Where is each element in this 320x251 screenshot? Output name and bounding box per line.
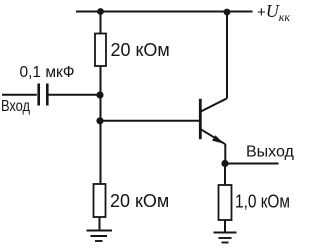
svg-text:0,1 мкФ: 0,1 мкФ [20,64,75,81]
svg-text:Вход: Вход [1,98,31,115]
svg-text:+Uкк: +Uкк [257,1,290,24]
svg-text:20 кОм: 20 кОм [111,40,170,60]
svg-text:1,0 кОм: 1,0 кОм [235,192,290,212]
svg-text:Выход: Выход [246,144,295,161]
svg-text:20 кОм: 20 кОм [110,191,169,211]
